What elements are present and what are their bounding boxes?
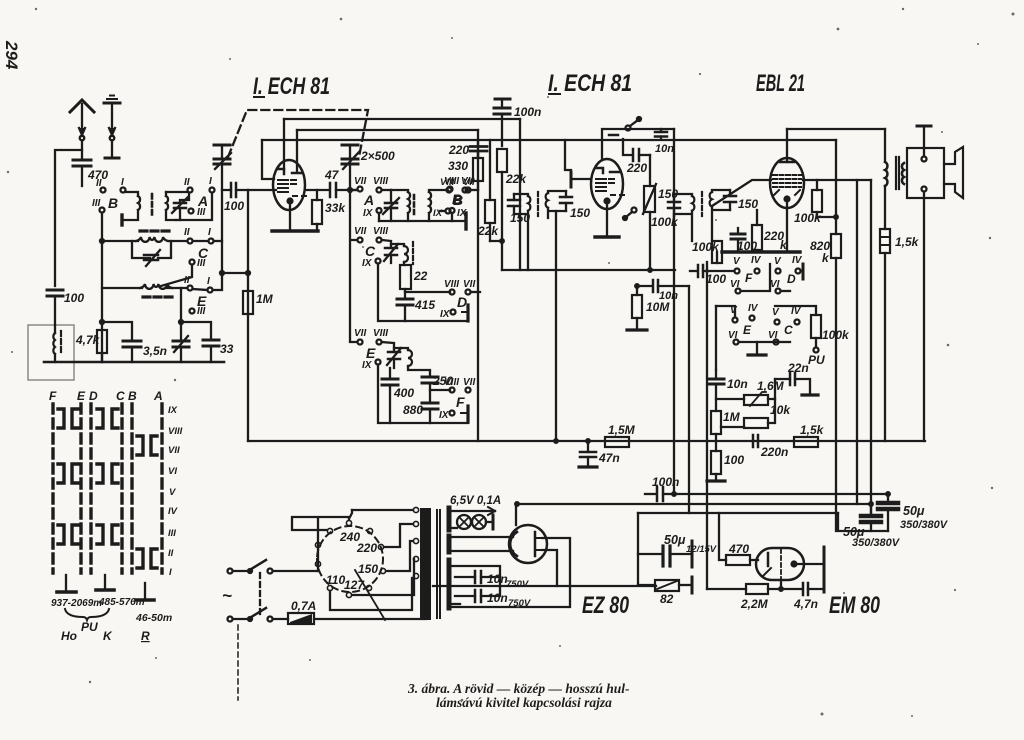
osc C trimmer	[382, 240, 398, 263]
wire grid tube1	[248, 189, 274, 191]
matrix column letters	[49, 389, 163, 403]
svg-text:VII: VII	[354, 176, 366, 187]
svg-text:IX: IX	[363, 208, 374, 219]
svg-text:100n: 100n	[652, 475, 679, 489]
svg-text:IV: IV	[751, 255, 762, 266]
svg-text:VI: VI	[730, 279, 740, 290]
capacitor 10n AVC	[637, 270, 689, 292]
capacitor 10n HV1	[455, 571, 500, 583]
C band coil	[100, 237, 187, 243]
pot 1.6M	[716, 379, 775, 406]
osc E trimmer	[382, 342, 401, 368]
IF2 core	[701, 192, 703, 216]
svg-text:2,2M: 2,2M	[740, 597, 769, 611]
resistor 100 cathode EBL	[707, 451, 725, 481]
title tube I ECH81	[254, 96, 264, 98]
svg-text:VII: VII	[463, 177, 475, 188]
resistor 82	[638, 577, 692, 593]
svg-text:IX: IX	[362, 258, 373, 269]
osc A coil left	[408, 192, 410, 213]
HV winding	[449, 560, 500, 608]
E band coil	[102, 284, 187, 289]
svg-text:II: II	[184, 177, 190, 188]
bus y270	[502, 269, 675, 271]
caption line 2	[436, 695, 612, 710]
HT return wire y586	[433, 585, 656, 587]
IF1 right coil	[546, 193, 548, 208]
long vertical x689	[688, 286, 690, 513]
long vertical x871	[870, 180, 872, 513]
output transformer primary	[885, 129, 887, 186]
osc row A contacts	[358, 187, 392, 222]
svg-text:127: 127	[344, 578, 365, 592]
wire 3.5n branch	[100, 320, 132, 341]
speaker box	[907, 148, 944, 198]
output transformer secondary	[902, 163, 904, 184]
resistor 100k detector	[712, 241, 722, 263]
svg-text:III: III	[168, 528, 176, 539]
22k resistor second	[485, 140, 495, 241]
bus139 screen drop	[835, 140, 837, 217]
svg-text:R: R	[141, 629, 150, 643]
bus y129	[297, 129, 478, 131]
svg-text:2×500: 2×500	[360, 149, 395, 163]
svg-text:IV: IV	[748, 303, 759, 314]
svg-text:VII: VII	[463, 377, 475, 388]
svg-text:VII: VII	[463, 279, 475, 290]
contact I right	[210, 188, 215, 193]
tube2 ECH81 envelope	[591, 159, 623, 209]
svg-text:350/380V: 350/380V	[852, 537, 901, 549]
svg-text:C: C	[365, 243, 376, 259]
capacitor 10n HV2	[455, 577, 500, 602]
capacitor 10n tube2	[655, 129, 667, 139]
capacitor 3.5n	[123, 341, 141, 362]
resistor 1.5k fb	[794, 437, 818, 447]
tube1 cathode to ground	[289, 205, 291, 231]
oscillator left rail	[350, 190, 356, 342]
x638 drop	[637, 513, 639, 585]
tap 240 wire	[352, 509, 413, 511]
mains terminal lower	[228, 608, 289, 622]
power transformer core	[420, 508, 440, 620]
tube1 grid dashes	[293, 195, 308, 197]
svg-text:I: I	[208, 227, 211, 238]
capacitor 415	[397, 299, 413, 321]
contact II E right	[188, 286, 223, 293]
wire 10n top	[715, 306, 717, 370]
output transformer core	[896, 157, 899, 189]
svg-text:VIII: VIII	[373, 328, 388, 339]
svg-text:IV: IV	[168, 506, 178, 517]
bus y139	[262, 139, 836, 141]
svg-text:82: 82	[660, 592, 674, 606]
fuse 0.7A	[288, 613, 426, 624]
svg-text:1,6M: 1,6M	[757, 379, 785, 393]
mains AC symbol	[222, 586, 232, 605]
EBL21 top bus	[787, 128, 885, 130]
svg-text:415: 415	[414, 298, 435, 312]
speaker ground	[917, 126, 931, 156]
svg-text:4,7k: 4,7k	[75, 333, 101, 347]
svg-text:F: F	[456, 394, 465, 410]
EZ80 plate wires	[542, 527, 558, 538]
heater winding lamps	[449, 507, 495, 530]
switch on plate box	[626, 117, 642, 131]
svg-text:I: I	[169, 567, 172, 578]
svg-text:VIII: VIII	[168, 426, 183, 437]
EBL21 grid hatch	[773, 175, 801, 187]
resistor 1M	[243, 291, 253, 314]
svg-text:D: D	[89, 389, 98, 403]
matrix brackets row3	[58, 525, 118, 544]
svg-text:~: ~	[222, 586, 232, 605]
svg-text:IX: IX	[433, 208, 443, 219]
osc A coil right	[429, 192, 431, 213]
svg-text:II: II	[184, 227, 190, 238]
contact block D	[776, 264, 804, 294]
matrix brackets row1b BA	[137, 436, 157, 455]
svg-text:46-50m: 46-50m	[135, 612, 172, 624]
contact block F	[708, 264, 770, 294]
svg-text:C: C	[116, 389, 125, 403]
svg-text:110: 110	[326, 573, 345, 587]
matrix brackets row2	[58, 464, 118, 483]
svg-text:C: C	[784, 323, 793, 337]
capacitor 220 top	[470, 140, 487, 158]
tap wires to core pins	[413, 507, 418, 578]
electrolytic box	[838, 494, 888, 531]
contacts B block mixer	[430, 188, 471, 214]
resistor 2.2M	[746, 584, 802, 594]
bottom bus left section	[44, 361, 224, 364]
osc A bottom bus	[379, 220, 466, 222]
box left rail	[247, 190, 249, 441]
EM80 tube drop	[780, 580, 782, 589]
resistor 1.5k vertical	[880, 186, 890, 441]
svg-text:EZ 80: EZ 80	[582, 592, 629, 619]
svg-text:750V: 750V	[506, 579, 529, 590]
box bottom AVC line	[248, 440, 925, 442]
gang dashed line	[228, 110, 368, 157]
svg-text:I: I	[209, 176, 212, 187]
EBL21 cathode dot	[783, 195, 790, 202]
contact III A right	[189, 209, 194, 214]
tube2 electrodes	[596, 168, 620, 191]
svg-text:III: III	[197, 306, 206, 317]
svg-text:III: III	[197, 258, 206, 269]
svg-text:220: 220	[626, 161, 647, 175]
svg-text:47n: 47n	[598, 451, 620, 465]
svg-text:22k: 22k	[505, 172, 527, 186]
svg-text:220n: 220n	[760, 445, 788, 459]
EM80 right wire	[798, 563, 822, 565]
speaker return	[923, 192, 925, 441]
B band bottom return	[180, 193, 212, 220]
EZ80 cathode arc	[510, 532, 517, 556]
rectifier heater winding	[449, 536, 513, 552]
contact III E	[190, 309, 195, 314]
B+ bus y504	[517, 503, 871, 505]
speaker cone	[944, 147, 963, 198]
resistor 100k PU	[811, 315, 821, 353]
EM80 envelope	[756, 548, 804, 580]
EM80 label	[829, 592, 880, 619]
contact block C switch	[774, 306, 817, 345]
osc C right contacts row	[405, 290, 480, 322]
svg-text:VIII: VIII	[444, 377, 459, 388]
EZ80 plates	[534, 532, 537, 556]
svg-text:PU: PU	[808, 353, 825, 367]
tuning capacitor C1	[214, 145, 231, 288]
svg-text:1,5k: 1,5k	[800, 423, 825, 437]
svg-text:VIII: VIII	[373, 226, 388, 237]
osc A core	[413, 195, 416, 216]
matrix ground K	[96, 575, 114, 590]
svg-text:VIII: VIII	[440, 177, 455, 188]
B band right winding	[166, 192, 188, 220]
svg-text:B: B	[108, 195, 118, 211]
svg-text:10n: 10n	[487, 572, 508, 586]
22k resistor first	[497, 146, 507, 241]
EM80 bottom wire	[707, 588, 746, 590]
contact II C right	[188, 239, 223, 244]
C band box with trimmer	[132, 241, 171, 266]
svg-text:220: 220	[356, 541, 377, 555]
svg-text:294: 294	[2, 40, 21, 70]
mains to dial	[292, 517, 349, 571]
svg-text:50μ: 50μ	[664, 533, 686, 547]
contact block E switch	[716, 306, 778, 355]
box right rail	[477, 130, 479, 441]
svg-text:VII: VII	[354, 226, 366, 237]
resistor 10k	[716, 399, 775, 428]
svg-text:100: 100	[724, 453, 744, 467]
svg-text:II: II	[96, 178, 102, 189]
tube2 grid dashes	[611, 194, 626, 196]
svg-text:1,5M: 1,5M	[608, 423, 636, 437]
AVC diagonal to EBL21	[712, 180, 771, 206]
wire antenna left branch	[55, 150, 82, 286]
svg-text:I. ECH 81: I. ECH 81	[548, 70, 632, 97]
capacitor 33	[203, 340, 219, 362]
long vertical x707	[706, 262, 708, 589]
svg-text:100k: 100k	[794, 211, 822, 225]
volume pot 100k/150	[643, 155, 656, 270]
tube2 cathode ground	[606, 205, 608, 237]
svg-text:VII: VII	[168, 445, 180, 456]
contact II B row	[101, 188, 106, 193]
svg-text:E: E	[366, 345, 376, 361]
E band core dashes	[143, 295, 172, 298]
capacitor 470 antenna	[73, 160, 91, 186]
frame antenna box	[28, 325, 74, 380]
svg-text:220: 220	[448, 143, 469, 157]
page number 294	[2, 40, 21, 70]
svg-text:100k: 100k	[692, 240, 720, 254]
svg-text:IV: IV	[792, 255, 803, 266]
svg-text:1,5k: 1,5k	[895, 235, 920, 249]
svg-text:VIII: VIII	[444, 279, 459, 290]
svg-text:F: F	[745, 271, 753, 285]
B band trimmer	[172, 193, 189, 220]
tap 127 wire	[352, 559, 414, 595]
svg-text:100: 100	[224, 199, 244, 213]
svg-text:10n: 10n	[727, 377, 748, 391]
osc C coil	[404, 246, 408, 262]
capacitor 4.7n	[803, 583, 822, 595]
B+ bus y494	[674, 493, 888, 495]
tap 110 wire	[330, 578, 412, 610]
svg-text:IX: IX	[362, 360, 373, 371]
resistor 10M	[627, 286, 647, 330]
svg-text:E: E	[77, 389, 86, 403]
capacitor 100n top	[494, 99, 510, 146]
svg-text:880: 880	[403, 403, 423, 417]
tap 220 wire	[384, 524, 413, 547]
svg-text:1M: 1M	[256, 292, 274, 306]
resistor 4.7k	[97, 330, 107, 362]
svg-text:10M: 10M	[646, 300, 670, 314]
svg-text:A: A	[363, 192, 374, 208]
capacitor 100 left column	[47, 290, 63, 325]
osc row E contacts	[358, 340, 382, 365]
dial lamps	[457, 515, 493, 529]
svg-text:II: II	[184, 275, 190, 286]
EZ80 output	[515, 504, 517, 525]
svg-text:150: 150	[570, 206, 590, 220]
svg-text:485-576m: 485-576m	[98, 597, 145, 608]
osc E right contacts	[430, 388, 471, 423]
long vertical x857	[856, 180, 858, 504]
resistor 1.5M	[605, 437, 629, 447]
resistor 1M fb	[711, 411, 721, 451]
capacitor 10n tone	[708, 370, 724, 411]
resistor 220k	[752, 210, 762, 252]
resistor 33k	[312, 190, 322, 231]
svg-text:PU: PU	[81, 620, 98, 634]
IF2 right coil	[710, 192, 712, 207]
osc A trimmer	[383, 190, 399, 221]
svg-text:IX: IX	[440, 309, 451, 320]
svg-text:150: 150	[738, 197, 758, 211]
osc E bottom bus	[378, 365, 468, 423]
matrix ground Ho	[57, 575, 76, 592]
capacitor 100 det	[731, 228, 745, 252]
svg-text:10k: 10k	[770, 403, 791, 417]
frame antenna coil	[53, 325, 61, 362]
svg-text:K: K	[103, 629, 113, 643]
svg-text:10n: 10n	[487, 591, 508, 605]
svg-text:100: 100	[706, 272, 726, 286]
bus y119	[284, 118, 520, 120]
ground bar tube1	[272, 229, 318, 232]
selector taps	[315, 520, 385, 597]
svg-text:III: III	[197, 207, 206, 218]
EM80 50u cap	[638, 541, 692, 567]
svg-text:VI: VI	[168, 466, 177, 477]
IF2 left cap	[668, 195, 680, 216]
svg-text:100: 100	[64, 291, 84, 305]
IF2 left coil	[692, 196, 694, 211]
E column down	[179, 288, 211, 341]
svg-text:22n: 22n	[787, 361, 809, 375]
capacitor 400	[382, 368, 398, 423]
osc row A right contacts	[448, 187, 479, 230]
tube1 ECH81 envelope	[273, 160, 305, 210]
svg-text:4,7n: 4,7n	[793, 597, 818, 611]
tuning line junction to 1M	[220, 271, 250, 275]
svg-text:3. ábra. A rövid — közép — hos: 3. ábra. A rövid — közép — hosszú hul-	[407, 681, 630, 696]
EZ80 label	[582, 592, 629, 619]
svg-text:400: 400	[393, 386, 414, 400]
svg-text:VIII: VIII	[373, 176, 388, 187]
svg-text:100n: 100n	[514, 105, 541, 119]
trimmer cap mid	[173, 336, 189, 362]
tap 150 wire	[386, 541, 413, 571]
svg-text:Ho: Ho	[61, 629, 77, 643]
svg-text:I: I	[121, 177, 124, 188]
svg-text:IX: IX	[439, 410, 450, 421]
resistor 470 EM80	[707, 513, 758, 565]
capacitor 250	[422, 377, 438, 403]
B+ bus y513	[638, 512, 838, 514]
tube1 top stems	[284, 119, 297, 172]
capacitor 22n	[775, 373, 810, 395]
contact III C	[161, 260, 195, 287]
matrix dashed verticals	[53, 404, 162, 573]
box corner to grid	[262, 140, 274, 179]
svg-text:D: D	[787, 272, 796, 286]
matrix ground R	[136, 583, 154, 600]
svg-text:350/380V: 350/380V	[900, 519, 949, 531]
svg-text:937-2069m: 937-2069m	[51, 598, 102, 609]
EZ80 envelope	[509, 525, 547, 563]
svg-text:II: II	[168, 548, 174, 559]
osc C core	[412, 242, 414, 264]
wire EBL21 grid	[803, 179, 871, 181]
osc E coil	[408, 350, 412, 366]
IF1 left cap 150	[508, 194, 520, 214]
matrix roman numerals	[168, 405, 183, 578]
EBL21 plate stem	[786, 129, 788, 162]
IF2 right cap 150	[724, 190, 736, 210]
svg-text:50μ: 50μ	[903, 504, 925, 518]
svg-text:D: D	[457, 294, 467, 310]
svg-text:V: V	[169, 487, 176, 498]
capacitor 100 AVC	[690, 263, 708, 279]
osc C bottom bus	[378, 264, 468, 321]
svg-text:330: 330	[448, 159, 468, 173]
IF1 left coil	[528, 196, 530, 211]
band switch matrix	[49, 389, 183, 578]
svg-text:0,7A: 0,7A	[291, 599, 316, 613]
svg-text:III: III	[92, 198, 101, 209]
tube2 cathode dot	[603, 197, 610, 204]
svg-text:I. ECH 81: I. ECH 81	[253, 73, 330, 100]
C band core dashes	[140, 229, 169, 232]
capacitor 100 coupling	[222, 183, 248, 197]
resistor 22	[400, 265, 411, 299]
capacitor 220n	[738, 435, 758, 447]
grid cap bar tube2	[570, 172, 573, 187]
IF1 core	[537, 192, 539, 216]
electrolytic 50u upper	[878, 503, 898, 531]
EM80 internals	[763, 549, 798, 579]
svg-text:IX: IX	[168, 405, 178, 416]
EBL21 grid leak 100k	[812, 180, 836, 217]
svg-text:10n: 10n	[655, 143, 674, 155]
